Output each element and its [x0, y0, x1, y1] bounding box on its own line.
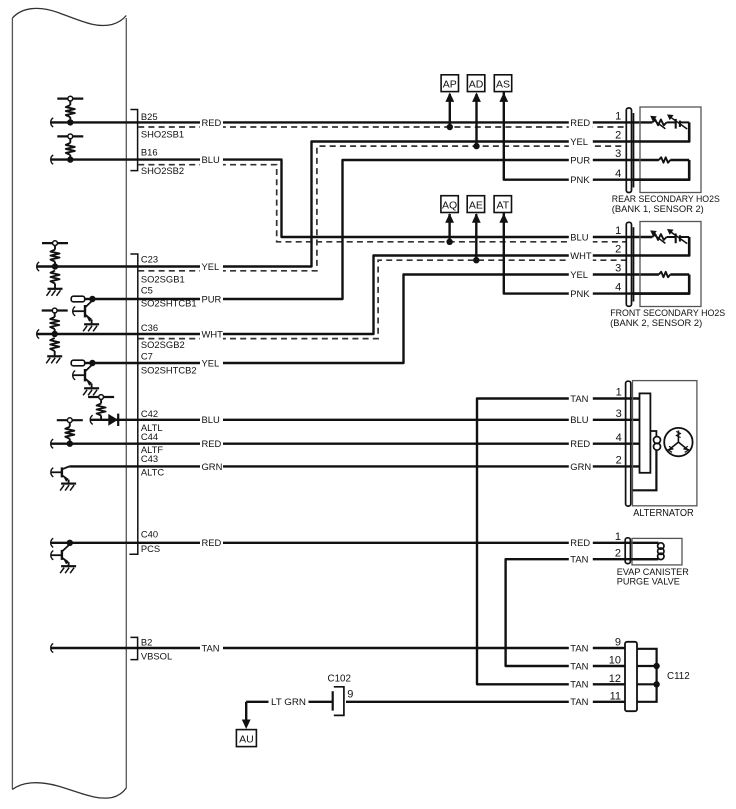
alternator component box — [633, 381, 697, 506]
svg-text:SO2SGB1: SO2SGB1 — [141, 273, 185, 284]
connector C (rear HO2S) terminal strip — [626, 108, 631, 193]
svg-text:C112: C112 — [667, 671, 690, 682]
wire colour label RED (ECM side, y=542.8) — [200, 537, 223, 549]
C112 joint bus — [637, 649, 657, 702]
svg-text:12: 12 — [609, 673, 621, 685]
wire WHT (C36 SO2SGB2 to front HO2S pin 2) — [126, 256, 631, 335]
driver transistor Q (C40 PCS internal) — [51, 544, 76, 573]
arrowhead AS — [499, 92, 508, 102]
svg-text:2: 2 — [615, 243, 621, 255]
alternator field coil — [633, 431, 661, 490]
svg-text:PUR: PUR — [570, 154, 590, 165]
svg-text:ALTERNATOR: ALTERNATOR — [633, 508, 694, 519]
wire BLU (C42 ALTL to alternator pin 3) — [126, 419, 639, 421]
wire B16 internal — [51, 155, 127, 164]
wire colour label GRN (ECM side, y=466.4) — [200, 460, 223, 472]
svg-text:PUR: PUR — [202, 293, 222, 304]
wire colour label WHT (component side, y=255.5) — [569, 250, 593, 262]
junction dot C44 — [67, 441, 73, 447]
connector (alternator) terminal strip — [626, 381, 631, 506]
svg-text:FRONT SECONDARY HO2S: FRONT SECONDARY HO2S — [610, 308, 725, 318]
svg-text:YEL: YEL — [202, 357, 220, 368]
rear HO2S sensing element resistor — [652, 120, 666, 126]
junction dot AE on WHT shield — [473, 257, 479, 263]
ground reference box AQ — [441, 196, 458, 213]
svg-text:1: 1 — [616, 387, 622, 399]
svg-text:4: 4 — [615, 282, 621, 294]
wire colour label PNK (component side, y=293.6) — [569, 288, 593, 300]
wire C5 internal — [92, 298, 126, 300]
svg-text:2: 2 — [616, 455, 622, 467]
svg-text:2: 2 — [615, 547, 621, 559]
svg-text:BLU: BLU — [570, 414, 588, 425]
junction dot C36 — [52, 331, 58, 337]
wire C42 internal — [90, 415, 126, 424]
wire colour label TAN (component side, y=684.3) — [569, 678, 593, 690]
wire YEL (C7 SO2SHTCB2 to front HO2S pin 3) — [126, 275, 659, 364]
connector (EVAP valve) terminal strip — [625, 538, 630, 564]
front HO2S heater resistor — [659, 272, 670, 277]
svg-text:ALTC: ALTC — [141, 466, 164, 477]
svg-text:RED: RED — [202, 537, 222, 548]
front HO2S element arrow 1 — [650, 230, 665, 243]
wire colour label TAN (ECM side, y=648.0) — [200, 642, 223, 654]
wire GRN (C43 ALTC to alternator pin 2) — [126, 465, 639, 467]
wire C43 internal — [69, 465, 126, 467]
svg-text:YEL: YEL — [202, 261, 220, 272]
svg-text:PNK: PNK — [570, 174, 590, 185]
wire drop to AU — [245, 702, 247, 723]
ground reference box AT — [494, 196, 511, 213]
svg-text:BLU: BLU — [202, 154, 220, 165]
junction dot C5 — [89, 296, 95, 302]
diode D (C42 ALTL internal) — [108, 414, 118, 426]
connector C102 female shell — [334, 687, 344, 716]
ground reference box AS — [494, 75, 511, 92]
svg-text:BLU: BLU — [202, 414, 220, 425]
svg-text:GRN: GRN — [570, 461, 591, 472]
wire C23 internal — [37, 262, 127, 271]
junction dot C112 bus upper — [653, 663, 659, 669]
wire RED (C44 ALTF to alternator pin 4) — [126, 443, 639, 445]
wire LT GRN (to C102) — [246, 701, 332, 703]
svg-text:2: 2 — [615, 130, 621, 142]
ground reference box AD — [467, 75, 484, 92]
wire colour label RED (component side, y=122.4) — [569, 116, 593, 128]
resistor divider pull-up (C36 internal) — [42, 308, 68, 334]
rear HO2S element arrow 1 — [650, 116, 665, 129]
svg-text:(BANK 2, SENSOR 2): (BANK 2, SENSOR 2) — [610, 318, 702, 328]
svg-text:WHT: WHT — [570, 250, 592, 261]
rear HO2S sense loop wire to pin 2 — [632, 122, 690, 141]
svg-text:RED: RED — [570, 537, 590, 548]
svg-text:C23: C23 — [141, 254, 158, 265]
connector bracket B25/B16 group — [130, 110, 137, 171]
junction dot C112 bus lower — [653, 681, 659, 687]
resistor pull-up (C44 internal) — [57, 418, 83, 444]
wire RED (C40 PCS to EVAP valve pin 1) — [126, 542, 658, 544]
svg-text:AD: AD — [469, 78, 484, 90]
svg-text:REAR SECONDARY HO2S: REAR SECONDARY HO2S — [612, 194, 720, 204]
front HO2S heater wire segment — [670, 273, 689, 275]
resistor pull-up (C42 internal) — [88, 395, 114, 420]
wire TAN (EVAP valve pin 2 to C112 pin 10) — [506, 559, 657, 666]
wire C7 internal — [92, 362, 126, 364]
rear HO2S element arrow 2 — [667, 114, 687, 129]
wire C44 internal — [51, 439, 127, 448]
alternator regulator bar — [640, 393, 651, 472]
arrow to AE from WHT shield — [472, 213, 481, 260]
connector bracket B2 group — [130, 637, 137, 659]
wire C36 internal — [37, 329, 127, 338]
label REAR SECONDARY HO2S — [612, 194, 720, 214]
svg-text:LT GRN: LT GRN — [271, 696, 306, 707]
svg-text:TAN: TAN — [570, 696, 588, 707]
rear HO2S heater wire segment — [670, 159, 689, 161]
front HO2S sense loop wire to pin 2 — [632, 237, 690, 256]
driver transistor Q (C7 heater control) — [71, 360, 99, 395]
wire YEL (C23 SO2SGB1 to rear HO2S pin 2) — [126, 142, 631, 267]
svg-text:SO2SHTCB2: SO2SHTCB2 — [141, 364, 197, 375]
svg-text:PCS: PCS — [141, 543, 160, 554]
rear secondary HO2S component box — [640, 107, 701, 193]
wire colour label BLU (component side, y=419.8) — [569, 414, 593, 426]
svg-text:9: 9 — [347, 689, 353, 701]
svg-text:B2: B2 — [141, 636, 152, 647]
svg-text:GRN: GRN — [202, 461, 223, 472]
svg-text:AQ: AQ — [442, 199, 457, 211]
wire colour label TAN (component side, y=398.5) — [569, 393, 593, 405]
svg-text:1: 1 — [615, 531, 621, 543]
driver transistor Q (C5 heater control) — [71, 296, 99, 331]
resistor pull-down C36 — [50, 338, 59, 356]
wire TAN (B2 VBSOL to C112 pin 9) — [126, 647, 625, 649]
wire colour label RED (ECM side, y=443.7) — [200, 438, 223, 450]
svg-text:3: 3 — [615, 262, 621, 274]
svg-text:SHO2SB2: SHO2SB2 — [141, 165, 184, 176]
front HO2S sensing element resistor — [652, 234, 666, 240]
svg-text:C7: C7 — [141, 350, 153, 361]
EVAP valve solenoid coil — [630, 543, 664, 560]
svg-text:9: 9 — [615, 637, 621, 649]
svg-text:C40: C40 — [141, 528, 158, 539]
wire colour label YEL (ECM side, y=266.5) — [200, 261, 223, 273]
svg-text:4: 4 — [616, 432, 622, 444]
junction dot B16 — [67, 156, 73, 162]
EVAP canister purge valve component box — [632, 538, 682, 565]
svg-text:C44: C44 — [141, 431, 158, 442]
svg-text:BLU: BLU — [570, 231, 588, 242]
svg-text:SHO2SB1: SHO2SB1 — [141, 128, 184, 139]
resistor pull-up (B16 internal) — [57, 134, 83, 160]
svg-text:C5: C5 — [141, 285, 153, 296]
svg-text:SO2SHTCB1: SO2SHTCB1 — [141, 297, 197, 308]
wire colour label RED (component side, y=542.8) — [569, 537, 593, 549]
svg-text:3: 3 — [615, 148, 621, 160]
wire colour label PUR (component side, y=160.0) — [569, 154, 593, 166]
svg-text:TAN: TAN — [202, 642, 220, 653]
connector C102 male terminal — [332, 691, 334, 710]
wire colour label TAN (component side, y=701.8) — [569, 696, 593, 708]
shield drain dash (YEL pair) — [138, 146, 626, 271]
label FRONT SECONDARY HO2S — [610, 308, 725, 328]
shield drain dash (RED pair) — [138, 126, 626, 128]
wire colour label RED (component side, y=443.7) — [569, 438, 593, 450]
svg-text:AE: AE — [469, 199, 483, 211]
wire colour label WHT (ECM side, y=334.0) — [200, 328, 223, 340]
wire colour label TAN (component side, y=648.0) — [569, 642, 593, 654]
wire colour label YEL (ECM side, y=363.0) — [200, 357, 223, 369]
label EVAP CANISTER PURGE VALVE — [617, 567, 689, 587]
junction dot C40 — [67, 540, 73, 546]
svg-text:AT: AT — [496, 199, 509, 211]
wire colour label GRN (component side, y=466.4) — [569, 460, 593, 472]
svg-text:RED: RED — [202, 117, 222, 128]
svg-text:SO2SGB2: SO2SGB2 — [141, 339, 185, 350]
wire colour label TAN (component side, y=559.2) — [569, 553, 593, 565]
front HO2S heater loop wire to pin 4 — [632, 275, 690, 294]
resistor pull-up (B25 internal) — [57, 96, 83, 122]
ground (C36 pull-down) — [46, 356, 62, 363]
junction dot AQ on BLU shield — [446, 239, 452, 245]
svg-text:RED: RED — [202, 438, 222, 449]
rear HO2S heater loop wire to pin 4 — [632, 160, 690, 180]
connector C (front HO2S) mating line — [633, 227, 635, 301]
svg-text:1: 1 — [615, 110, 621, 122]
wire BLU (B16 SHO2SB2 to front HO2S pin 1) — [126, 160, 652, 237]
svg-text:TAN: TAN — [570, 393, 588, 404]
svg-text:C102: C102 — [328, 674, 351, 685]
svg-text:B25: B25 — [141, 111, 158, 122]
rear HO2S galvanic cell — [667, 119, 690, 129]
svg-text:TAN: TAN — [570, 554, 588, 565]
driver transistor Q (C43 ALTC internal) — [51, 466, 76, 490]
arrow to AP from RED shield — [445, 92, 454, 127]
svg-text:1: 1 — [615, 225, 621, 237]
wire colour label PUR (ECM side, y=299.0) — [200, 293, 223, 305]
svg-text:C42: C42 — [141, 408, 158, 419]
arrowhead to AU — [242, 720, 251, 730]
svg-text:AU: AU — [239, 733, 254, 745]
junction dot C7 — [89, 360, 95, 366]
junction dot B25 — [67, 119, 73, 125]
wire colour label RED (ECM side, y=122.4) — [200, 116, 223, 128]
svg-text:EVAP CANISTER: EVAP CANISTER — [617, 567, 689, 577]
ground reference box AP — [441, 75, 458, 92]
front HO2S element arrow 2 — [667, 229, 687, 244]
connector C (front HO2S) terminal strip — [626, 222, 631, 306]
svg-text:RED: RED — [570, 438, 590, 449]
ground (C23 pull-down) — [47, 289, 63, 296]
resistor pull-down C23 — [51, 271, 60, 289]
ground reference box AU — [236, 730, 256, 747]
svg-text:TAN: TAN — [570, 660, 588, 671]
wire PNK (AT to front HO2S pin 4) — [504, 213, 689, 294]
arrowhead AT — [499, 213, 508, 223]
arrow to AQ from BLU shield — [445, 213, 454, 242]
connector C112 body — [625, 642, 637, 711]
wire colour label PNK (component side, y=179.7) — [569, 174, 593, 186]
wire colour label YEL (component side, y=274.5) — [569, 269, 593, 281]
front HO2S galvanic cell — [667, 234, 690, 244]
svg-text:TAN: TAN — [570, 642, 588, 653]
wire B2 internal — [51, 643, 127, 652]
svg-text:YEL: YEL — [570, 269, 588, 280]
svg-text:3: 3 — [616, 408, 622, 420]
svg-text:11: 11 — [610, 690, 621, 702]
ground reference box AE — [467, 196, 484, 213]
shield drain dash (WHT pair) — [138, 260, 626, 338]
svg-text:RED: RED — [570, 117, 590, 128]
svg-text:(BANK 1, SENSOR 2): (BANK 1, SENSOR 2) — [612, 204, 704, 214]
alternator generator symbol — [664, 428, 692, 456]
wire colour label TAN (component side, y=666.0) — [569, 660, 593, 672]
wire B25 internal — [51, 118, 127, 127]
svg-text:AP: AP — [443, 78, 457, 90]
wire PNK (AS to rear HO2S pin 4) — [504, 92, 689, 180]
resistor divider pull-up (C23 internal) — [42, 241, 68, 267]
connector C (rear HO2S) mating line — [633, 113, 635, 188]
wire TAN (alternator pin 1 to C112 pin 12) — [477, 399, 640, 685]
svg-text:C36: C36 — [141, 322, 158, 333]
front secondary HO2S component box — [640, 222, 701, 307]
junction dot C23 — [52, 263, 58, 269]
svg-text:TAN: TAN — [570, 679, 588, 690]
wire PUR (C5 SO2SHTCB1 to rear HO2S pin 3) — [126, 160, 659, 299]
svg-text:PURGE VALVE: PURGE VALVE — [617, 577, 680, 587]
svg-text:AS: AS — [496, 78, 510, 90]
svg-text:YEL: YEL — [570, 136, 588, 147]
wire colour label LT GRN — [269, 696, 309, 708]
svg-text:B16: B16 — [141, 147, 158, 158]
svg-text:VBSOL: VBSOL — [141, 651, 172, 662]
ECM/PCM module outline (torn edges) — [12, 8, 126, 798]
junction dot AD on YEL shield — [473, 143, 479, 149]
svg-text:PNK: PNK — [570, 288, 590, 299]
wire colour label BLU (ECM side, y=419.8) — [200, 414, 223, 426]
wire TAN (C102 to C112 pin 11) — [346, 701, 625, 703]
wire colour label BLU (component side, y=237.0) — [569, 231, 593, 243]
wire colour label BLU (ECM side, y=159.6) — [200, 154, 223, 166]
svg-text:4: 4 — [615, 168, 621, 180]
connector bracket C23..C40 group — [129, 254, 137, 554]
svg-text:C43: C43 — [141, 453, 158, 464]
shield drain dash (BLU pair) — [138, 165, 626, 242]
arrow to AD from YEL shield — [472, 92, 481, 146]
wire RED (B25 SHO2SB1 to rear HO2S pin 1) — [126, 121, 652, 123]
svg-text:10: 10 — [609, 655, 621, 667]
wire C40 internal — [51, 538, 127, 547]
rear HO2S heater resistor — [659, 157, 670, 162]
wire colour label YEL (component side, y=141.5) — [569, 136, 593, 148]
svg-text:WHT: WHT — [202, 328, 224, 339]
junction dot AP on RED shield — [447, 124, 453, 130]
